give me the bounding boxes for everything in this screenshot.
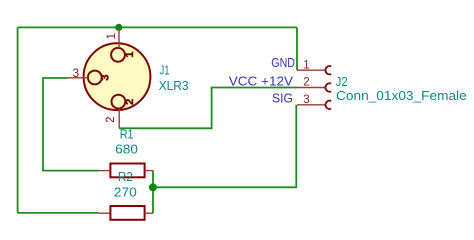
R2 left pin [98, 212, 110, 214]
connector J2 pin 1 line [297, 69, 326, 71]
svg-text:R1: R1 [120, 127, 134, 142]
svg-text:2: 2 [124, 99, 136, 105]
J1 pin 3 pad circle [88, 71, 102, 85]
svg-text:270: 270 [114, 185, 137, 200]
svg-text:1: 1 [303, 59, 309, 71]
wire: from J1 pin3 to left mid rail [43, 78, 98, 171]
svg-text:3: 3 [303, 94, 309, 106]
svg-text:1: 1 [124, 52, 136, 58]
J1 pin 1 pad circle [111, 48, 125, 62]
svg-text:J2: J2 [336, 74, 348, 89]
R1 left pin [98, 170, 110, 172]
J2 pin 2 female arc [325, 83, 331, 91]
wire: left vertical rail [17, 27, 19, 213]
J2 pin 3 female arc [325, 101, 331, 109]
wire: R1 right pin down to R2 right pin [152, 171, 154, 214]
J1 pin 1 (vertical pin line at top) [118, 27, 120, 48]
svg-text:2: 2 [105, 116, 117, 122]
svg-text:VCC +12V: VCC +12V [229, 73, 294, 88]
svg-text:J1: J1 [160, 63, 170, 78]
connector J2 pin 3 line [297, 104, 326, 106]
svg-text:GND: GND [271, 55, 295, 70]
J1 pin 2 pad circle [112, 95, 126, 109]
J1 pin 2 (vertical pin line at bottom) [118, 108, 120, 128]
wire: from J1 pin2 down and right then up to VCC row (J2 pin2) [119, 88, 297, 129]
resistor R1 body [110, 164, 144, 178]
junction: dot at top wire / J1 pin1 [115, 24, 122, 31]
svg-text:1: 1 [106, 33, 118, 39]
connector J2 pin 2 line [297, 87, 326, 89]
J1 pin 3 (horizontal pin line at left) [68, 77, 88, 79]
resistor R2 body [110, 206, 144, 220]
wire: bottom horizontal to R2 left pin [18, 212, 98, 214]
wire: SIG net from junction to J2 pin3 [153, 105, 296, 188]
svg-text:2: 2 [303, 77, 309, 89]
connector J1 body (XLR3 circle) [84, 43, 151, 110]
svg-text:SIG: SIG [272, 90, 293, 105]
svg-text:R2: R2 [118, 169, 133, 184]
svg-text:3: 3 [100, 75, 112, 81]
R2 right pin [145, 212, 153, 214]
svg-text:3: 3 [73, 68, 79, 80]
R1 right pin [145, 170, 153, 172]
wire: top horizontal from left rail to J2 pin1 drop [18, 26, 297, 28]
J2 pin 1 female arc [325, 66, 331, 74]
svg-text:XLR3: XLR3 [159, 78, 189, 93]
junction: dot at R divider / SIG tap [149, 183, 157, 191]
svg-text:Conn_01x03_Female: Conn_01x03_Female [336, 88, 467, 103]
wire: right vertical drop to J2 pin1 [296, 27, 298, 70]
svg-text:680: 680 [115, 142, 138, 157]
